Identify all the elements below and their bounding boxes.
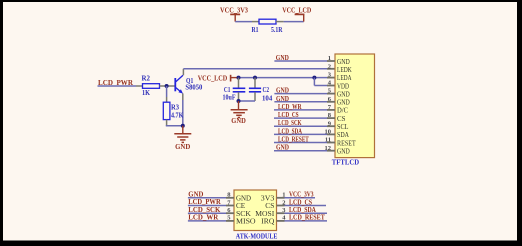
junction dot [312,76,316,80]
pin 8 GND [188,190,252,202]
resistor R2 1K [142,75,160,98]
svg-text:VCC_3V3: VCC_3V3 [289,192,314,199]
svg-text:4.7K: 4.7K [171,112,184,120]
svg-text:LCD_SDA: LCD_SDA [289,207,316,214]
pin 6 GND [274,96,349,107]
pin 4 IRQ LCD_RESET [261,215,327,226]
pin 2 LEDK [328,63,352,74]
svg-text:VDD: VDD [337,82,349,90]
wire R3 to emitter node [166,120,183,126]
svg-text:IRQ: IRQ [261,217,275,226]
wire rail to LEDK pin2 [183,68,335,70]
svg-text:1: 1 [282,192,285,199]
pin 8 CS LCD_CS [274,112,346,123]
svg-text:S8050: S8050 [185,84,202,92]
svg-text:GND: GND [276,88,289,95]
svg-text:SCL: SCL [337,123,349,131]
pin 1 GND [274,55,349,66]
pin 5 MISO LCD_WR [188,214,256,226]
wire cap bottoms [239,100,256,102]
svg-text:LCD_WR: LCD_WR [188,214,219,222]
junction dot [253,76,257,80]
svg-text:LCD_WR: LCD_WR [278,104,302,111]
wire drop to VDD pin4 [314,78,335,86]
power VCC_LCD mid [198,74,239,83]
svg-text:2: 2 [282,199,285,206]
svg-text:GND: GND [276,55,289,62]
pin 10 SDA LCD_SDA [274,128,349,139]
wire [98,85,143,87]
svg-text:10: 10 [325,129,332,136]
svg-text:12: 12 [325,145,332,152]
svg-text:MISO: MISO [236,217,256,226]
connector TFTLCD [332,54,375,167]
pin 6 SCK LCD_SCK [188,206,252,218]
svg-text:GND: GND [337,90,350,98]
svg-text:1K: 1K [142,89,150,97]
pin 1 3V3 VCC_3V3 [261,192,315,203]
capacitor C1 10uF [223,78,246,102]
resistor R1 [252,19,284,34]
svg-text:VCC_LCD: VCC_LCD [282,7,311,15]
svg-text:LCD_RESET: LCD_RESET [289,215,325,222]
svg-text:5.1R: 5.1R [271,26,283,34]
pin 7 D/C LCD_WR [274,104,348,115]
svg-text:104: 104 [262,94,273,102]
power VCC_LCD [282,7,311,22]
svg-text:LEDA: LEDA [337,74,352,82]
svg-text:10uF: 10uF [223,94,236,102]
svg-text:LCD_CS: LCD_CS [289,199,312,206]
svg-text:GND: GND [276,145,289,152]
svg-text:GND: GND [175,143,190,151]
svg-text:LCD_SCK: LCD_SCK [278,120,302,127]
junction dot [237,99,241,103]
svg-text:LCD_RESET: LCD_RESET [278,137,309,144]
transistor Q1 S8050 [175,75,203,93]
wire [160,85,175,87]
pin 11 RESET LCD_RESET [274,137,356,148]
pin 2 CS LCD_CS [265,199,326,210]
svg-text:TFTLCD: TFTLCD [332,159,359,167]
wire [235,21,259,23]
pin 9 SCL LCD_SCK [274,120,349,131]
wire [276,21,304,23]
svg-text:2: 2 [328,63,331,70]
wire R3 branch [166,86,168,102]
svg-text:LCD_CS: LCD_CS [278,112,299,119]
junction dot [181,124,185,128]
svg-text:GND: GND [231,117,246,125]
svg-text:GND: GND [337,99,350,107]
resistor R3 4.7K [163,102,183,119]
svg-text:VCC_LCD: VCC_LCD [198,74,228,83]
capacitor C2 104 [249,78,273,103]
ground under caps [231,101,248,125]
module ATK-MODULE [234,190,278,241]
net label LCD_PWR [98,79,134,87]
junction dot [165,84,169,88]
svg-text:R3: R3 [171,104,179,112]
svg-text:GND: GND [276,96,289,103]
svg-text:R1: R1 [252,26,259,34]
svg-text:LEDK: LEDK [337,66,352,74]
svg-text:VCC_3V3: VCC_3V3 [220,7,248,15]
svg-text:11: 11 [325,137,331,144]
svg-text:R2: R2 [142,75,151,83]
ground under Q1 [174,126,191,151]
svg-text:SDA: SDA [337,131,349,139]
svg-text:RESET: RESET [337,139,356,147]
svg-text:GND: GND [337,147,350,155]
svg-text:1: 1 [328,55,331,62]
pin 5 GND [274,88,349,99]
pin 12 GND [274,145,350,156]
svg-text:ATK-MODULE: ATK-MODULE [236,233,278,241]
wire emitter [182,93,184,125]
pin 3 LEDA [328,71,352,82]
svg-text:C2: C2 [263,86,270,94]
wire collector [182,69,184,75]
svg-text:D/C: D/C [337,107,348,115]
pin 3 MOSI LCD_SDA [255,207,327,218]
junction dot [237,76,241,80]
power VCC_3V3 [220,7,248,22]
pin 7 CE LCD_PWR [188,198,246,210]
svg-text:LCD_SDA: LCD_SDA [278,128,302,135]
svg-text:CS: CS [337,115,346,123]
svg-text:GND: GND [337,58,350,66]
wire VCC_LCD rail [239,77,336,79]
pin 4 VDD [328,80,349,91]
